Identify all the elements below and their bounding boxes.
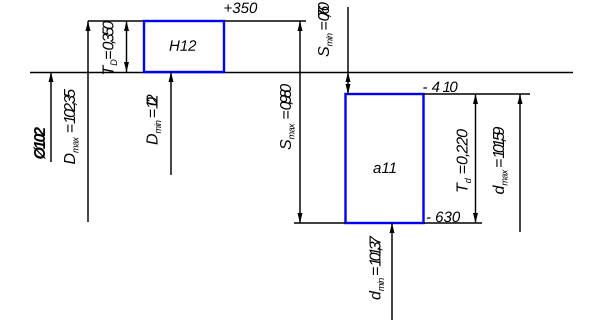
- zero line (0 deviation axis): [30, 72, 573, 74]
- dimension line dmin: [391, 223, 393, 320]
- shaft tolerance zone a11: [346, 94, 424, 223]
- svg-text:Ø102: Ø102: [32, 127, 49, 160]
- extension line -410 level: [424, 93, 531, 95]
- svg-text:a11: a11: [373, 160, 397, 177]
- hole tolerance zone H12: [144, 21, 224, 72]
- svg-text:+350: +350: [223, 0, 257, 17]
- svg-text:TD=0,350: TD=0,350: [101, 21, 120, 76]
- extension line Smax bottom: [294, 222, 346, 224]
- svg-text:dmin =101,37: dmin =101,37: [368, 235, 387, 300]
- dimension line dmax: [519, 94, 521, 232]
- dimension line Td: [475, 94, 477, 223]
- svg-text:Td =0,220: Td =0,220: [455, 129, 474, 193]
- svg-text:dmax =101,59: dmax =101,59: [491, 127, 510, 195]
- svg-text:- 630: - 630: [426, 209, 461, 226]
- dimension line Dmax: [87, 21, 89, 222]
- svg-text:Dmin =102: Dmin =102: [145, 94, 164, 145]
- svg-text:H12: H12: [169, 38, 197, 55]
- svg-text:Dmax =102,35: Dmax =102,35: [62, 89, 81, 165]
- dimension line TD: [126, 21, 128, 72]
- top line +350 level: [88, 20, 306, 22]
- svg-text:Smin =0,760: Smin =0,760: [316, 2, 335, 57]
- svg-text:Smax =0,980: Smax =0,980: [278, 84, 297, 150]
- dimension line nominal 102: [50, 72, 52, 162]
- dimension line Dmin: [170, 72, 172, 175]
- extension line -630 level: [424, 222, 483, 224]
- dimension line Smax: [299, 21, 301, 223]
- dimension line Smin: [347, 7, 349, 94]
